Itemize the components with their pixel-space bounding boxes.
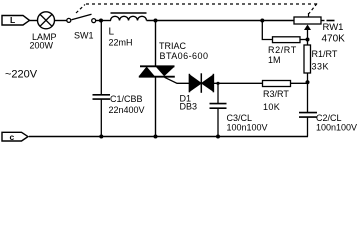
svg-text:200W: 200W	[30, 41, 54, 51]
capacitor C1/CBB	[93, 21, 111, 137]
svg-text:c: c	[10, 132, 15, 142]
svg-text:R2/RT: R2/RT	[268, 45, 297, 55]
label C3/CL 100n100V	[227, 113, 268, 132]
wire tag to lamp	[30, 20, 39, 22]
inductor core bar	[111, 12, 147, 14]
wire R2 to wiper node	[300, 39, 308, 41]
node junction C1 top	[99, 19, 103, 23]
lamp EL (circle with X)	[38, 12, 55, 29]
inductor L (4 humps)	[111, 16, 147, 20]
label C2/CL 100n100V	[316, 113, 357, 132]
svg-text:SW1: SW1	[74, 30, 94, 40]
svg-text:33K: 33K	[312, 61, 330, 71]
node junction wiper/R2/R1	[306, 38, 310, 42]
resistor R3/RT	[263, 81, 291, 87]
terminal N (neutral tag)	[2, 132, 28, 142]
svg-text:1M: 1M	[268, 55, 281, 65]
resistor R2/RT	[273, 37, 301, 43]
svg-text:10K: 10K	[263, 102, 280, 112]
wire R3 to node	[291, 82, 308, 84]
wire diac to R3	[213, 82, 262, 84]
diac D1 DB3	[189, 73, 213, 93]
svg-text:TRIAC: TRIAC	[159, 41, 187, 51]
triac symbol	[139, 66, 175, 76]
triac gate wire	[165, 77, 190, 83]
node junction triac MT1 bottom	[154, 135, 158, 139]
terminal L (live input tag)	[2, 15, 30, 25]
node junction triac MT2	[154, 19, 158, 23]
label RW1 470K	[322, 22, 346, 44]
svg-text:R3/RT: R3/RT	[263, 89, 289, 99]
svg-text:470K: 470K	[322, 33, 346, 44]
node junction C1 bottom	[99, 135, 103, 139]
triac BT1 MT2 lead	[155, 21, 157, 67]
svg-text:22mH: 22mH	[109, 38, 133, 48]
label C1/CBB 22n400V	[109, 94, 145, 115]
label D1 DB3	[180, 93, 198, 111]
svg-text:~220V: ~220V	[5, 69, 38, 81]
label TRIAC BTA06-600	[159, 41, 208, 61]
bottom rail wire	[29, 136, 308, 138]
label R2/RT 1M	[268, 45, 297, 65]
label R3/RT 10K	[263, 89, 289, 112]
label L 22mH	[109, 27, 133, 48]
switch SW1	[67, 14, 96, 22]
svg-text:100n100V: 100n100V	[316, 122, 357, 132]
potentiometer RW1	[294, 17, 325, 24]
resistor R2/RT drop wire	[262, 21, 272, 40]
svg-text:100n100V: 100n100V	[227, 122, 268, 132]
resistor R1/RT	[304, 40, 311, 84]
svg-text:L: L	[10, 15, 15, 25]
svg-text:C1/CBB: C1/CBB	[110, 94, 143, 104]
node junction R2 drop	[260, 19, 264, 23]
wire inductor to right	[147, 20, 295, 22]
svg-text:L: L	[109, 27, 115, 38]
RW1 wiper arrow	[304, 25, 311, 40]
svg-text:BTA06-600: BTA06-600	[160, 51, 209, 61]
svg-text:RW1: RW1	[323, 22, 344, 33]
node junction C3 bottom	[216, 135, 220, 139]
capacitor C3	[210, 83, 227, 136]
label R1/RT 33K	[312, 49, 338, 71]
triac MT1 lead	[155, 77, 157, 137]
wire switch to inductor	[96, 20, 111, 22]
svg-text:22n400V: 22n400V	[109, 105, 145, 115]
wire lamp to switch	[54, 20, 67, 22]
svg-text:DB3: DB3	[180, 102, 198, 112]
svg-text:R1/RT: R1/RT	[312, 49, 338, 59]
node junction C3	[216, 82, 219, 85]
label LAMP 200W	[30, 32, 57, 51]
node junction R1/R3/C2	[306, 80, 310, 84]
capacitor C2	[299, 83, 317, 136]
dashed mechanical link	[76, 4, 335, 21]
